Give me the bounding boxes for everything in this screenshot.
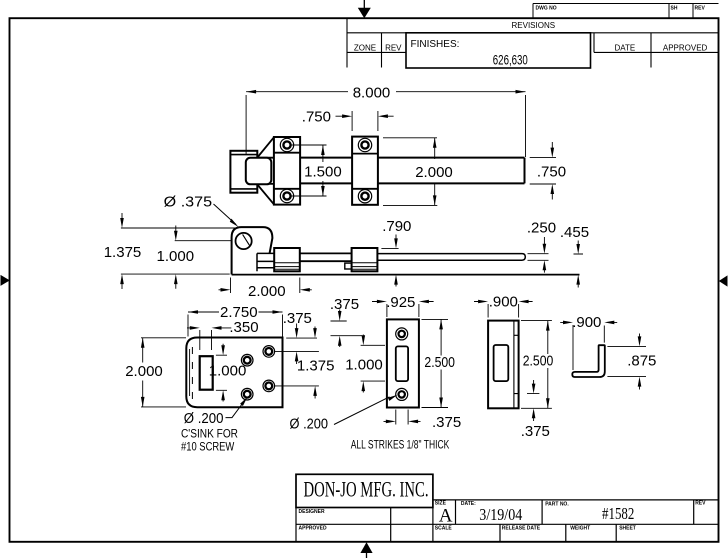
title block frame (296, 500, 719, 542)
top edge center mark (358, 0, 371, 18)
mounting plate (bottom view) (186, 338, 282, 408)
dimension 2.000 bracket height (383, 138, 453, 206)
note C'SINK FOR #10 SCREW (181, 426, 238, 453)
svg-text:DATE:: DATE: (461, 501, 476, 507)
svg-text:APPROVED: APPROVED (299, 526, 327, 532)
dimension .900 profile width (560, 314, 617, 370)
svg-text:ALL STRIKES 1/8" THICK: ALL STRIKES 1/8" THICK (351, 437, 450, 451)
dimension .375 top hole offset (strike) (330, 296, 362, 347)
svg-text:DESIGNER: DESIGNER (299, 509, 326, 515)
revisions table (347, 18, 719, 67)
mounting body (side view) (232, 227, 275, 274)
dimension .750 rod width (530, 142, 566, 200)
bolt rod tip (side view) (377, 254, 525, 261)
dimension 1.500 hole spacing (291, 145, 342, 196)
dimension 2.750 plate width (188, 304, 283, 337)
svg-text:Ø .200: Ø .200 (184, 410, 224, 427)
svg-text:1.500: 1.500 (304, 164, 342, 181)
dimension 2.500 strike height (422, 319, 456, 407)
svg-text:SH: SH (671, 6, 678, 12)
right edge center mark (719, 275, 728, 286)
dimension .750 bracket width (302, 109, 394, 132)
dimension .375 lip offset (521, 380, 550, 440)
svg-text:SHEET: SHEET (619, 526, 636, 532)
guide bracket 2 (front view) (352, 137, 378, 205)
company name box DON-JO MFG. INC. (296, 474, 433, 507)
svg-text:.875: .875 (627, 352, 656, 369)
svg-text:626,630: 626,630 (493, 52, 528, 68)
bolt knob cap (front view) (230, 151, 257, 193)
bracket 2 screw hole bottom (358, 190, 371, 203)
svg-text:3/19/04: 3/19/04 (479, 505, 522, 524)
bolt knob ball (front view) (246, 158, 271, 185)
svg-text:ZONE: ZONE (354, 44, 376, 53)
knob slot (bottom view) (200, 356, 213, 390)
svg-text:1.000: 1.000 (209, 362, 247, 379)
title block labels (299, 501, 707, 532)
svg-text:REVISIONS: REVISIONS (512, 21, 556, 30)
guide bracket 2 tab (side view) (345, 263, 352, 269)
dimension 1.375 body height (104, 213, 238, 289)
angle strike slot (494, 345, 509, 381)
bolt rod (front view) (300, 158, 524, 184)
svg-text:#10 SCREW: #10 SCREW (181, 440, 235, 454)
svg-text:RELEASE DATE: RELEASE DATE (502, 526, 541, 532)
knob hole circle (side view) (236, 233, 252, 249)
svg-text:1.375: 1.375 (297, 358, 335, 375)
svg-text:2.000: 2.000 (415, 164, 453, 181)
svg-text:1.375: 1.375 (104, 244, 142, 261)
svg-text:FINISHES:: FINISHES: (411, 39, 460, 50)
svg-text:.455: .455 (560, 224, 589, 241)
dimension .875 profile height (607, 334, 656, 390)
dimension 1.000 hole height (157, 226, 232, 289)
svg-text:DWG NO: DWG NO (536, 6, 557, 12)
svg-text:2.750: 2.750 (220, 304, 258, 321)
plate screw hole right bottom (263, 380, 275, 392)
dimension 8.000 overall length (246, 84, 525, 157)
dimension .925 strike width (372, 294, 434, 317)
dimension .375 slot width (strike) (384, 410, 462, 432)
dimension .350 slot width (ext lines into plate) (187, 319, 259, 350)
leader dia .375 knob hole (164, 193, 239, 227)
svg-text:#1582: #1582 (602, 504, 634, 523)
svg-text:Ø .375: Ø .375 (164, 193, 212, 210)
svg-text:.750: .750 (537, 164, 566, 181)
svg-text:2.500: 2.500 (424, 354, 455, 371)
svg-text:DATE: DATE (615, 44, 636, 53)
dimension .900 angle strike width (474, 294, 533, 318)
svg-text:1.000: 1.000 (157, 248, 195, 265)
svg-text:Ø .200: Ø .200 (290, 415, 329, 432)
leader dia .200 strike hole (290, 395, 398, 433)
bolt rod between brackets (side view) (300, 253, 352, 261)
svg-text:2.500: 2.500 (523, 353, 554, 370)
dimension .790 bracket height (381, 218, 411, 286)
svg-text:REV: REV (695, 501, 706, 507)
dimension .250 rod thickness (527, 220, 556, 273)
svg-text:A: A (439, 506, 453, 527)
svg-text:WEIGHT: WEIGHT (570, 526, 590, 532)
svg-text:2.000: 2.000 (125, 363, 163, 380)
strike plate hole bottom (396, 388, 408, 400)
plate screw hole mid bottom (241, 388, 253, 400)
svg-text:REV: REV (695, 6, 706, 12)
svg-text:1.000: 1.000 (345, 357, 383, 374)
drawing number strip DWG NO / SH / REV (533, 4, 719, 19)
bottom edge center mark (360, 542, 372, 558)
svg-text:APPROVED: APPROVED (663, 44, 708, 53)
dimension 1.000 slot height (strike) (345, 335, 385, 393)
svg-text:REV: REV (385, 44, 402, 53)
plate screw hole mid top (241, 354, 253, 366)
svg-text:.350: .350 (229, 319, 258, 336)
svg-text:DON-JO MFG. INC.: DON-JO MFG. INC. (304, 477, 429, 502)
dimension 1.000 slot height (209, 344, 247, 402)
svg-text:2.000: 2.000 (248, 283, 286, 300)
base line (side view) (232, 274, 580, 276)
guide bracket 1 (side view) (274, 248, 300, 271)
finishes box 626,630 (406, 33, 591, 68)
dimension 1.375 hole spacing (297, 327, 335, 399)
bracket 1 screw hole bottom (280, 189, 293, 202)
flat strike plate (front view) (387, 319, 419, 407)
hole reference lines (bottom view) (275, 338, 319, 386)
svg-text:.375: .375 (283, 310, 312, 327)
dimension .455 height (560, 224, 589, 287)
strike plate slot (396, 346, 408, 381)
dimension 2.000 body length (219, 278, 312, 301)
svg-text:.790: .790 (382, 218, 411, 235)
svg-text:.375: .375 (432, 414, 461, 431)
strike plate hole top (396, 328, 408, 340)
guide bracket 1 (front view) (274, 137, 300, 205)
angle strike plate (side view) (488, 321, 518, 409)
svg-text:.250: .250 (527, 220, 556, 237)
svg-text:8.000: 8.000 (353, 84, 391, 101)
left edge center mark (1, 275, 10, 286)
bracket 2 screw hole top (358, 138, 371, 151)
svg-text:PART NO.: PART NO. (545, 502, 569, 508)
leader dia .200 countersink (184, 397, 248, 427)
svg-text:C'SINK FOR: C'SINK FOR (181, 426, 238, 440)
wing gussets (front view) (257, 137, 274, 204)
angle strike profile (L view) (572, 345, 605, 377)
dimension .375 hole offset (283, 310, 312, 364)
guide bracket 2 (side view) (352, 248, 378, 271)
svg-text:.925: .925 (386, 294, 415, 311)
svg-text:.900: .900 (489, 294, 518, 311)
svg-text:.900: .900 (572, 314, 601, 331)
svg-text:.375: .375 (330, 296, 359, 313)
dimension 2.000 plate height (125, 338, 186, 407)
bracket 1 screw hole top (280, 138, 293, 151)
svg-text:.750: .750 (302, 109, 331, 126)
plate screw hole right top (263, 346, 275, 358)
svg-text:.375: .375 (521, 423, 550, 440)
dimension 2.500 angle strike height (521, 321, 553, 409)
